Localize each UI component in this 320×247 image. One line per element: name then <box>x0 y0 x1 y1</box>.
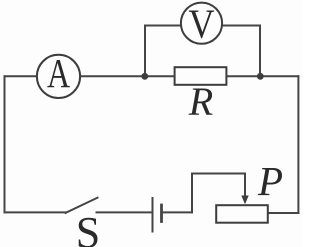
wire voltmeter branch right vertical <box>259 26 261 77</box>
svg-text:V: V <box>188 2 214 47</box>
wire switch contact to battery <box>97 211 152 213</box>
wire voltmeter branch left vertical <box>144 26 146 77</box>
wire voltmeter branch right horizontal <box>222 25 260 27</box>
wire slider feed horizontal <box>192 173 245 175</box>
wire rheostat to right rail <box>268 212 299 214</box>
switch S blade <box>66 198 98 213</box>
wire ammeter to node A <box>80 75 174 77</box>
rheostat P body <box>216 205 268 223</box>
wire resistor to node B <box>226 75 298 77</box>
wire voltmeter branch left horizontal <box>145 25 181 27</box>
svg-text:P: P <box>257 158 283 204</box>
wire left rail <box>4 76 6 212</box>
ammeter A <box>37 50 80 98</box>
wire riser up to slider feed <box>191 174 193 213</box>
rheostat slider arrowhead <box>241 196 248 205</box>
wire bottom-left to switch pivot <box>5 211 67 213</box>
svg-text:R: R <box>188 79 213 124</box>
wire right rail <box>297 76 299 213</box>
svg-text:S: S <box>76 208 100 247</box>
node A junction dot <box>141 73 148 80</box>
battery short plate <box>160 205 163 222</box>
node B junction dot <box>257 73 264 80</box>
wire top-left from left rail to ammeter <box>5 75 38 77</box>
wire battery to riser <box>163 211 193 213</box>
svg-text:A: A <box>47 50 70 96</box>
wire slider arrow stem <box>244 174 246 197</box>
battery long plate <box>152 198 154 232</box>
voltmeter V <box>181 2 222 47</box>
resistor R <box>175 67 227 85</box>
